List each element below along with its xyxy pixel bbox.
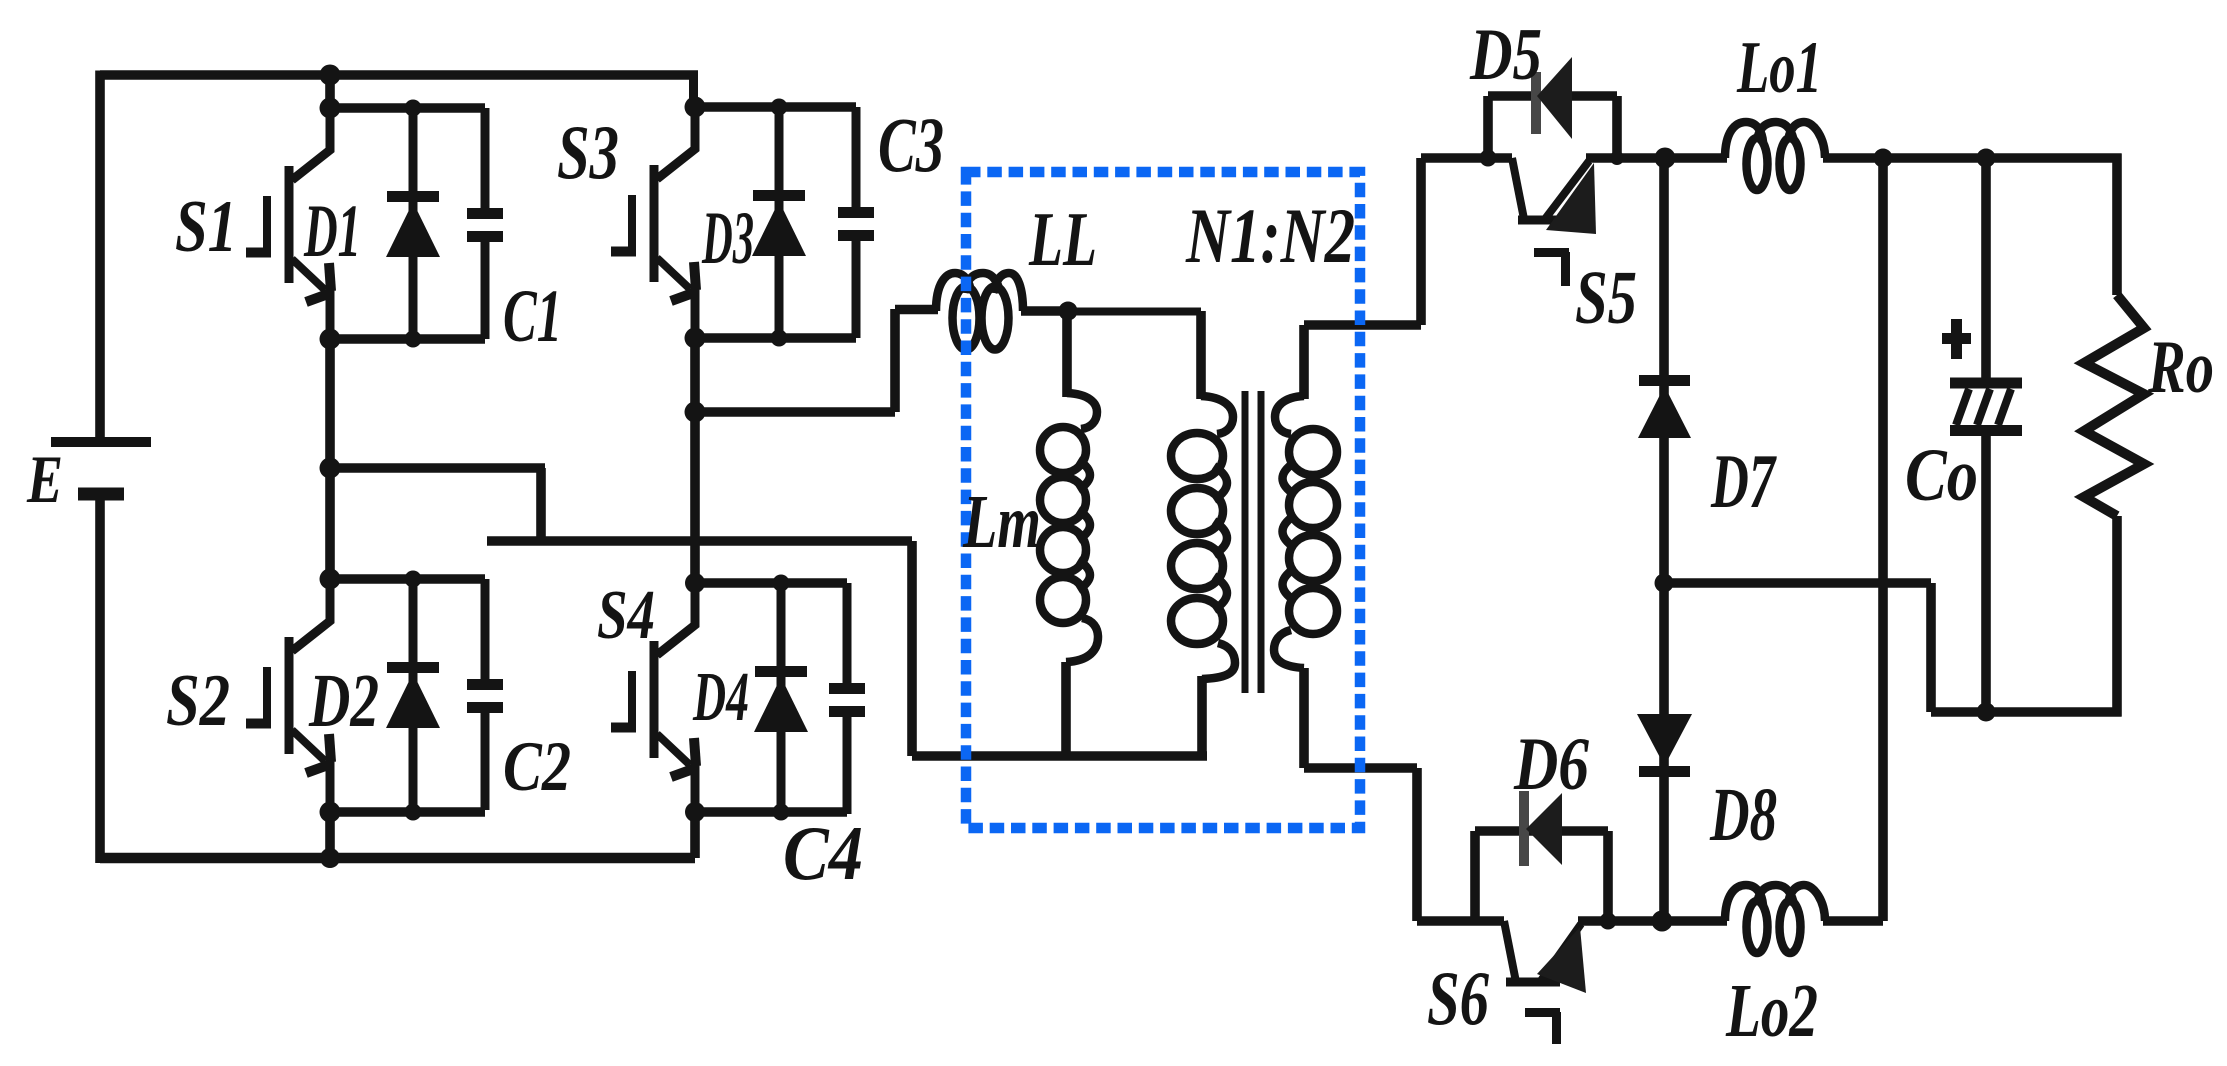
svg-text:C2: C2 bbox=[503, 728, 571, 806]
svg-text:N1:N2: N1:N2 bbox=[1185, 192, 1355, 279]
svg-text:D2: D2 bbox=[308, 659, 379, 743]
svg-text:S4: S4 bbox=[597, 577, 655, 654]
svg-text:S5: S5 bbox=[1575, 256, 1637, 340]
svg-text:D1: D1 bbox=[303, 190, 361, 273]
svg-text:Co: Co bbox=[1905, 434, 1978, 517]
svg-text:C4: C4 bbox=[783, 810, 863, 896]
svg-text:D6: D6 bbox=[1513, 723, 1589, 806]
svg-text:D3: D3 bbox=[701, 197, 754, 280]
svg-text:S1: S1 bbox=[175, 186, 237, 268]
svg-text:S3: S3 bbox=[557, 109, 619, 195]
svg-text:LL: LL bbox=[1028, 196, 1097, 282]
svg-text:D4: D4 bbox=[692, 659, 749, 736]
svg-text:Lo1: Lo1 bbox=[1736, 27, 1822, 109]
svg-text:D5: D5 bbox=[1469, 14, 1542, 96]
svg-text:E: E bbox=[26, 441, 63, 517]
svg-text:C3: C3 bbox=[878, 101, 944, 188]
svg-text:Lm: Lm bbox=[962, 480, 1041, 564]
svg-text:D7: D7 bbox=[1710, 438, 1777, 524]
svg-text:S2: S2 bbox=[166, 660, 230, 742]
svg-text:S6: S6 bbox=[1427, 955, 1489, 1041]
svg-text:D8: D8 bbox=[1709, 773, 1777, 857]
svg-text:Lo2: Lo2 bbox=[1725, 969, 1818, 1053]
svg-text:C1: C1 bbox=[503, 275, 562, 358]
svg-text:Ro: Ro bbox=[2147, 326, 2214, 409]
